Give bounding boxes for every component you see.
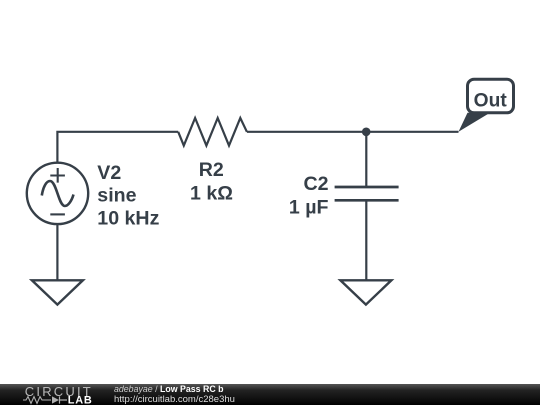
voltage source V2 [27,163,88,224]
svg-text:sine: sine [97,185,136,207]
svg-text:V2: V2 [97,162,121,184]
svg-text:Out: Out [474,90,508,111]
svg-text:1 kΩ: 1 kΩ [190,182,233,204]
wire: capacitor bottom to ground [365,200,367,280]
Out flag box [468,79,514,113]
svg-text:http://circuitlab.com/c28e3hu: http://circuitlab.com/c28e3hu [114,394,235,405]
resistor R2 [178,118,247,146]
wire: source bottom to ground [56,224,58,280]
footer bar [0,384,540,405]
wire: junction down to capacitor [365,132,367,187]
ground under source [32,280,83,304]
svg-text:C2: C2 [303,173,328,195]
svg-text:adebayae / Low Pass RC b: adebayae / Low Pass RC b [114,384,224,394]
ground under capacitor [340,280,391,304]
svg-text:LAB: LAB [68,394,93,405]
node junction dot [362,128,371,137]
svg-text:R2: R2 [199,159,224,181]
wire: source top to resistor left [57,132,178,163]
CircuitLab logo waveform [23,397,51,404]
wire: resistor right to Out pointer [247,131,459,133]
capacitor C2 plates [335,187,399,200]
logo diode [52,396,59,403]
svg-text:1 µF: 1 µF [289,197,329,219]
svg-text:10 kHz: 10 kHz [97,207,159,229]
Out flag pointer [459,113,491,132]
